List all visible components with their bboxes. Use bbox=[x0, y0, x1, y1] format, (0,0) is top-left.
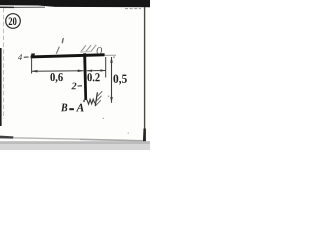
thin extension of top chord to dim line bbox=[105, 54, 117, 56]
circled figure number 20 bbox=[6, 14, 21, 29]
dimension 0,2 extension line (right) bbox=[105, 57, 107, 78]
dimension line 0,6 bbox=[32, 70, 84, 72]
rod 2 (vertical bar corner to B) bbox=[83, 53, 87, 100]
frame bottom border line bbox=[0, 136, 150, 150]
small tick above beam left end bbox=[31, 53, 35, 56]
faint scan specks bbox=[108, 95, 110, 97]
rod 1 (horizontal beam A-O) bbox=[31, 53, 105, 58]
spring zigzag at B bbox=[87, 99, 95, 104]
label O (pivot) bbox=[97, 47, 103, 54]
frame right border line bbox=[143, 7, 146, 143]
dimension text 0,2 bbox=[87, 73, 99, 81]
frame left border line (faint dashed) bbox=[3, 8, 5, 119]
dimension 0,5 vertical line bbox=[111, 57, 113, 103]
inclined wall at lower right bbox=[95, 91, 102, 106]
dimension text 0,5 bbox=[113, 75, 126, 85]
dimension 0,6 extension line (left) bbox=[31, 58, 33, 74]
small foot at bar bottom end bbox=[83, 100, 85, 102]
dimension text 0,6 bbox=[50, 73, 62, 83]
arrowheads of 0,5 bbox=[110, 57, 113, 63]
arrowheads of 0,2 bbox=[87, 70, 92, 72]
text B - A at bottom bbox=[61, 104, 84, 112]
frame top border line bbox=[0, 0, 150, 9]
dimension line 0,2 bbox=[87, 70, 106, 72]
label 1 with leader bbox=[56, 38, 64, 54]
page edge dark sliver at far left bbox=[0, 48, 2, 126]
label 4 with dash at left end of beam bbox=[18, 54, 29, 60]
pivot support hatching above O bbox=[80, 45, 96, 52]
arrowheads of 0,6 bbox=[32, 70, 38, 73]
label 2 with dash on rod 2 bbox=[72, 83, 83, 90]
